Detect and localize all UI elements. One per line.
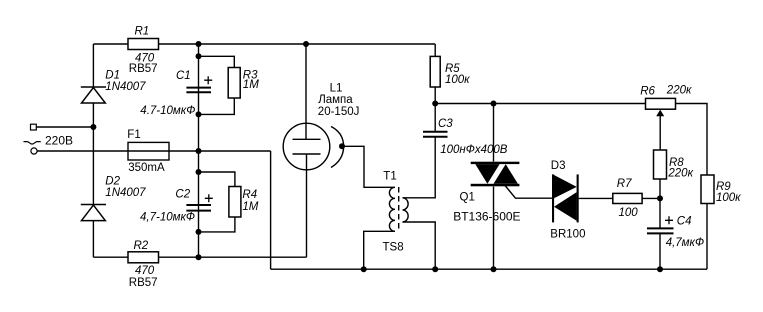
wire R9 bottom [706, 204, 708, 270]
resistor R8 [654, 150, 667, 179]
svg-text:4,7мкФ: 4,7мкФ [666, 237, 704, 249]
wire Q1 gate [505, 186, 552, 199]
svg-text:220к: 220к [667, 168, 693, 180]
node lamp top [303, 41, 309, 47]
svg-text:C2: C2 [175, 188, 190, 200]
terminal circle (neutral) [31, 148, 37, 154]
wire lamp arc to transformer [342, 146, 395, 187]
resistor R7 [613, 193, 642, 203]
svg-text:Q1: Q1 [460, 192, 475, 204]
node primary bottom rail [361, 266, 367, 272]
wire mid rail [435, 104, 707, 176]
C2 plus sign [205, 194, 213, 202]
diac D3 [552, 174, 579, 222]
svg-text:100к: 100к [716, 192, 741, 204]
svg-text:100к: 100к [445, 74, 470, 86]
wire R3 loop bottom [199, 98, 235, 114]
svg-text:D3: D3 [551, 160, 566, 172]
svg-text:4,7-10мкФ: 4,7-10мкФ [140, 212, 195, 224]
wire F1 row [37, 150, 270, 152]
wire R6 wiper to R8 [659, 115, 661, 150]
wire C4 bottom [659, 233, 661, 269]
capacitor C3 [423, 132, 448, 137]
diode D1 [81, 87, 106, 103]
svg-text:L1: L1 [330, 83, 343, 95]
svg-text:1M: 1M [243, 79, 259, 91]
svg-text:R2: R2 [134, 240, 149, 252]
wire left vertical D1/D2 branch [92, 44, 94, 87]
wire input terminal top [36, 126, 93, 128]
svg-text:100: 100 [619, 207, 639, 219]
svg-text:350mA: 350mA [128, 162, 165, 174]
svg-text:1M: 1M [242, 201, 258, 213]
resistor R4 [229, 187, 241, 218]
wire R5 branch [434, 44, 436, 56]
capacitor C2 [186, 205, 211, 211]
node C2 top [196, 169, 202, 175]
node Q1 top [491, 101, 497, 107]
resistor R1 [128, 39, 159, 50]
svg-text:R6: R6 [640, 86, 655, 98]
svg-text:BT136-600E: BT136-600E [453, 209, 520, 223]
capacitor C1 [186, 88, 211, 93]
wire R4 loop top [199, 172, 235, 187]
transformer T1 secondary winding [403, 198, 409, 222]
resistor R5 [430, 56, 440, 87]
node R2 row [196, 254, 202, 260]
svg-text:Лампа: Лампа [318, 94, 353, 106]
wire top rail [93, 43, 435, 45]
svg-text:220В: 220В [45, 134, 73, 148]
svg-text:D1: D1 [105, 70, 120, 82]
node C4 bottom rail [657, 266, 663, 272]
wire neutral down right [270, 151, 272, 269]
svg-text:T1: T1 [383, 170, 396, 182]
wire C3 top [434, 104, 436, 132]
wire R4 loop bottom [199, 217, 235, 232]
wire C4 top [659, 198, 661, 228]
svg-text:1N4007: 1N4007 [105, 187, 146, 199]
svg-text:RB57: RB57 [129, 63, 158, 75]
transformer T1 primary winding [389, 187, 395, 231]
wire R5 to mid junction [434, 87, 436, 104]
triac Q1 [471, 162, 520, 187]
fuse F1 [128, 142, 169, 160]
wire R2 row [93, 256, 306, 258]
node R3 top [196, 53, 202, 59]
svg-text:1N4007: 1N4007 [105, 81, 146, 93]
svg-text:TS8: TS8 [383, 241, 404, 253]
wire R3 loop top [199, 56, 235, 67]
R6 wiper arrow [656, 110, 664, 117]
wire transformer primary bottom [364, 231, 395, 269]
node C1 bottom [196, 111, 202, 117]
svg-text:RB57: RB57 [129, 277, 158, 289]
svg-text:4.7-10мкФ: 4.7-10мкФ [140, 105, 195, 117]
svg-text:R4: R4 [242, 189, 257, 201]
node F1 out [196, 148, 202, 154]
wire lamp top lead [305, 44, 307, 139]
svg-text:R7: R7 [617, 178, 632, 190]
node lamp arc [339, 143, 345, 149]
node C2 bottom [196, 229, 202, 235]
svg-text:F1: F1 [127, 129, 140, 141]
C1 plus sign [204, 76, 212, 84]
svg-text:C4: C4 [677, 216, 692, 228]
wire bottom rail [271, 268, 707, 270]
lamp L1 [283, 123, 343, 170]
node R5 bottom [432, 101, 438, 107]
resistor R2 [128, 252, 159, 263]
potentiometer R6 [646, 98, 676, 109]
svg-text:20-150J: 20-150J [318, 106, 360, 118]
resistor R9 [701, 175, 714, 204]
node secondary bottom rail [432, 266, 438, 272]
diode D2 [81, 205, 106, 221]
svg-text:100нФх400В: 100нФх400В [440, 144, 508, 156]
wire lamp bottom lead [306, 154, 308, 257]
resistor R3 [228, 68, 240, 99]
svg-text:C3: C3 [438, 118, 453, 130]
node input junction [90, 124, 96, 130]
wire R8 to node [659, 179, 661, 198]
C4 plus sign [665, 216, 673, 224]
terminal square (line) [31, 124, 37, 130]
wire transformer secondary bottom [403, 222, 436, 269]
svg-text:D2: D2 [105, 176, 120, 188]
transformer T1 core [398, 187, 400, 232]
wire transformer secondary top [403, 137, 436, 198]
wire R7 to node [642, 197, 660, 199]
wire D1 to input junction [92, 103, 94, 205]
wire main vertical C1/C2 [198, 44, 200, 257]
wire D2 to R2 corner [92, 221, 94, 257]
AC squiggle [24, 142, 41, 144]
svg-text:470: 470 [135, 265, 155, 277]
wire Q1 top [493, 104, 495, 162]
capacitor C4 [647, 228, 674, 233]
node R7 R8 C4 [657, 195, 663, 201]
svg-text:220к: 220к [666, 85, 692, 97]
svg-text:R1: R1 [135, 26, 150, 38]
wire Q1 bottom [493, 187, 495, 270]
svg-text:BR100: BR100 [550, 229, 585, 241]
node C1 top [196, 41, 202, 47]
node Q1 bottom rail [491, 266, 497, 272]
wire D3 to R7 [579, 197, 613, 199]
svg-text:C1: C1 [176, 70, 191, 82]
